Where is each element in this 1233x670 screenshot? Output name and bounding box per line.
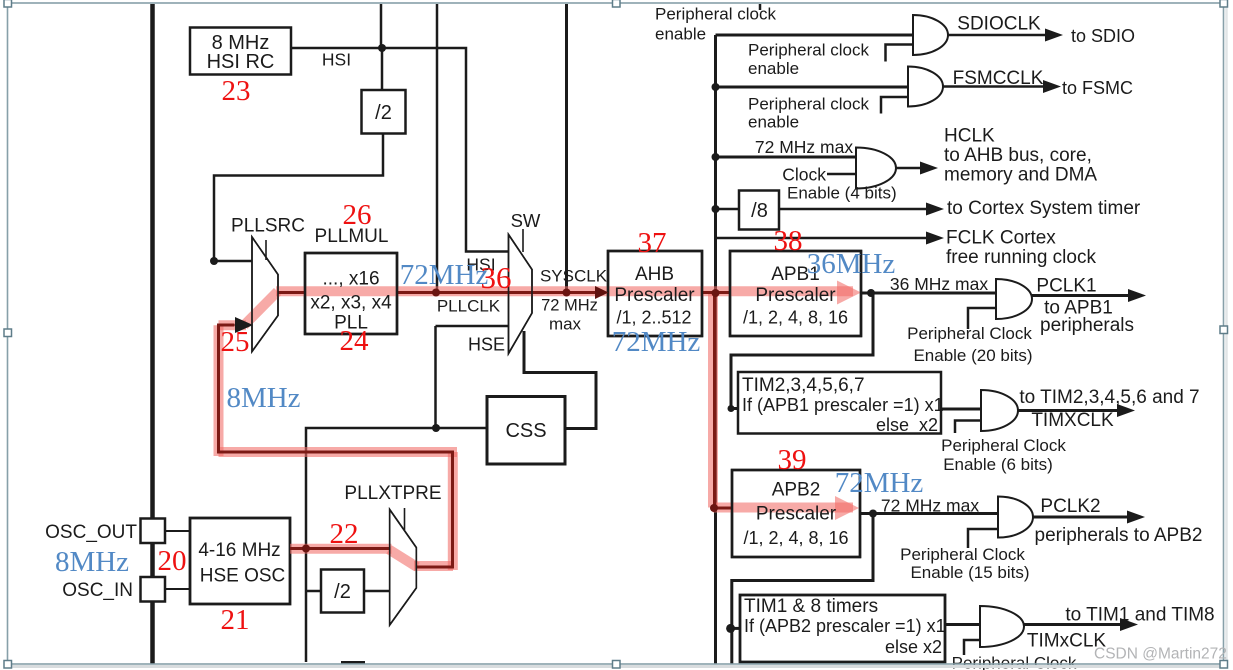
junction /8 tap node: [712, 205, 720, 213]
selection handle top-left: [4, 0, 12, 7]
red highlight band into APB2: [713, 503, 853, 513]
oscillator box 4-16 MHz HSE OSC: [190, 518, 290, 604]
and-gate FSMCCLK enable: [908, 67, 943, 107]
pin OSC_OUT: [141, 519, 166, 544]
selection handle top-mid: [613, 0, 621, 7]
red arrowhead into APB1: [837, 281, 861, 305]
red highlight band main clock run: [276, 286, 853, 296]
selection handle bottom-right: [1220, 661, 1228, 669]
svg-text:/1, 2, 4, 8, 16: /1, 2, 4, 8, 16: [743, 528, 848, 548]
junction HSE output node: [302, 545, 310, 553]
box TIM1 and TIM8 timers: [740, 595, 945, 662]
svg-text:/8: /8: [751, 200, 768, 222]
svg-text:72MHz: 72MHz: [400, 259, 489, 291]
wire SDIO gate enable input: [886, 45, 914, 62]
svg-text:peripherals: peripherals: [1040, 315, 1134, 336]
svg-text:Prescaler: Prescaler: [756, 504, 837, 525]
svg-text:peripherals to APB2: peripherals to APB2: [1035, 525, 1203, 546]
wire HSE route to PLLSRC input 2: [219, 325, 453, 567]
svg-text:SDIOCLK: SDIOCLK: [957, 14, 1041, 35]
wire PLLSRC input 1: [214, 260, 252, 263]
svg-text:36MHz: 36MHz: [807, 248, 896, 280]
PLL box PLLMUL: [305, 253, 397, 334]
wire FSMC gate clock input: [716, 86, 909, 89]
svg-text:Prescaler: Prescaler: [614, 285, 695, 306]
pin OSC_IN: [141, 577, 166, 602]
APB2 box border redraw: [732, 470, 860, 557]
svg-text:..., x16: ..., x16: [322, 269, 379, 290]
arrowhead into PLLSRC mux: [235, 317, 253, 333]
wire PCLK2 gate enable input: [968, 529, 998, 548]
svg-text:PCLK2: PCLK2: [1040, 496, 1100, 517]
svg-text:to TIM1 and TIM8: to TIM1 and TIM8: [1065, 605, 1214, 626]
wire SDIO gate output: [948, 34, 1047, 37]
svg-text:72MHz: 72MHz: [835, 467, 924, 499]
svg-text:36 MHz max: 36 MHz max: [890, 274, 988, 294]
selection handle bottom-left: [4, 661, 12, 669]
svg-text:Enable (4 bits): Enable (4 bits): [787, 184, 897, 203]
wire TIMXCLK gate output: [1018, 409, 1120, 412]
svg-text:to FSMC: to FSMC: [1062, 78, 1133, 98]
box APB1 Prescaler: [730, 251, 861, 336]
red core APB2 input wire: [715, 507, 733, 510]
wire FSMC gate enable input: [881, 97, 908, 114]
svg-text:72 MHz: 72 MHz: [541, 297, 598, 315]
red highlight band vertical rise x218: [214, 325, 224, 456]
selection handle bottom-mid: [613, 661, 621, 669]
svg-text:If (APB1 prescaler =1) x1: If (APB1 prescaler =1) x1: [742, 395, 944, 415]
svg-text:8MHz: 8MHz: [226, 382, 300, 414]
red core PLLCLK wire: [397, 291, 596, 294]
wire APB2 prescaler input: [716, 507, 733, 510]
arrowhead to FSMC: [1043, 80, 1061, 93]
svg-text:enable: enable: [655, 25, 706, 44]
svg-text:Prescaler: Prescaler: [755, 285, 836, 306]
oscillator box 8 MHz HSI RC: [190, 28, 291, 75]
red highlight band HSE output: [290, 544, 392, 554]
svg-text:AHB: AHB: [635, 264, 674, 285]
svg-text:25: 25: [221, 326, 250, 358]
svg-text:to AHB bus, core,: to AHB bus, core,: [944, 145, 1092, 166]
wire APB1 prescaler output: [861, 292, 996, 295]
wire peripheral clock enable top tick: [759, 4, 762, 10]
red highlight band PLLXTPRE diagonal: [389, 550, 417, 568]
wire AHB prescaler output: [702, 291, 730, 294]
wire HSI branch to SW mux: [381, 48, 509, 252]
arrowhead PCLK1: [1128, 289, 1146, 302]
svg-text:OSC_IN: OSC_IN: [62, 580, 133, 601]
junction TIM1 input node: [726, 624, 735, 633]
svg-text:FCLK Cortex: FCLK Cortex: [946, 228, 1056, 249]
svg-text:26: 26: [343, 199, 372, 231]
wire HCLK gate output: [896, 167, 922, 170]
wire HSE OSC output: [290, 547, 390, 550]
red highlight band into PLLSRC: [219, 320, 247, 330]
box TIM2,3,4,5,6,7: [738, 372, 941, 434]
svg-text:72 MHz max: 72 MHz max: [755, 137, 853, 157]
and-gate TIM1 TIMxCLK enable: [980, 606, 1024, 647]
svg-text:OSC_OUT: OSC_OUT: [45, 522, 137, 543]
wire TIM1 gate enable input: [964, 640, 980, 655]
junction HCLK bus node: [712, 289, 720, 297]
svg-text:TIM2,3,4,5,6,7: TIM2,3,4,5,6,7: [742, 375, 865, 396]
svg-text:to SDIO: to SDIO: [1071, 26, 1135, 46]
svg-text:/1, 2, 4, 8, 16: /1, 2, 4, 8, 16: [743, 308, 848, 328]
svg-text:4-16 MHz: 4-16 MHz: [198, 540, 280, 561]
svg-text:37: 37: [638, 227, 667, 259]
svg-text:max: max: [549, 315, 582, 334]
arrowhead HCLK output: [920, 162, 938, 175]
svg-text:Peripheral clock: Peripheral clock: [748, 41, 869, 60]
and-gate HCLK enable: [856, 148, 896, 189]
wire HCLK clock enable input: [827, 173, 856, 176]
svg-text:enable: enable: [748, 113, 799, 132]
arrowhead to Cortex System timer: [926, 203, 944, 216]
svg-text:HSI RC: HSI RC: [207, 51, 275, 73]
junction APB1 output node: [867, 289, 875, 297]
svg-text:enable: enable: [748, 59, 799, 78]
PLLSRC mux border redraw: [252, 237, 278, 352]
svg-text:Enable (20 bits): Enable (20 bits): [913, 346, 1032, 365]
wire FSMC gate output: [943, 85, 1045, 88]
box AHB Prescaler: [608, 251, 702, 336]
wire HSE /2 input: [306, 590, 321, 593]
box CSS: [487, 397, 565, 465]
svg-text:21: 21: [221, 604, 250, 636]
arrowhead FCLK Cortex: [926, 232, 944, 245]
wire TIM2 block output: [941, 408, 981, 411]
svg-text:/2: /2: [334, 581, 351, 603]
svg-text:Peripheral Clock: Peripheral Clock: [907, 324, 1032, 343]
red core PLLXTPRE to PLLSRC wire: [219, 325, 453, 567]
svg-text:TIM1 & 8 timers: TIM1 & 8 timers: [744, 596, 878, 617]
svg-text:8MHz: 8MHz: [55, 546, 129, 578]
wire HSI to /2 divider: [381, 48, 384, 90]
frame shadow bottom: [12, 665, 1223, 668]
junction HCLK tap node: [712, 153, 720, 161]
wire APB2 to TIM1 block: [732, 514, 873, 665]
wire PCLK2 gate output: [1033, 516, 1130, 519]
svg-text:to TIM2,3,4,5,6 and 7: to TIM2,3,4,5,6 and 7: [1019, 387, 1199, 408]
mux PLLSRC select tick: [265, 240, 267, 260]
APB1 box border redraw: [730, 251, 861, 336]
svg-text:x2, x3, x4: x2, x3, x4: [310, 293, 392, 314]
wire FCLK Cortex: [716, 237, 929, 240]
wire HSE branch to SW mux: [436, 326, 509, 428]
wire APB2 prescaler output: [860, 512, 998, 515]
wire left thick bus: [150, 4, 155, 664]
divider box /2 HSE: [321, 570, 364, 613]
wire bottom cut fragment: [341, 661, 365, 664]
wire PLLSRC output: [278, 291, 305, 294]
wire HSE riser and CSS line: [306, 428, 487, 662]
frame shadow right: [1225, 8, 1228, 664]
svg-text:TIMXCLK: TIMXCLK: [1031, 410, 1114, 431]
svg-text:23: 23: [222, 75, 251, 107]
red core PLLSRC output wire: [278, 291, 305, 294]
wire TIM1 block input stub: [731, 627, 740, 630]
red highlight band horizontal y452: [219, 447, 458, 457]
junction TIM2 input corner node: [728, 405, 735, 412]
selection handle top-right: [1220, 0, 1228, 7]
svg-text:HSI: HSI: [322, 50, 351, 70]
svg-text:/1, 2..512: /1, 2..512: [616, 308, 691, 328]
junction CSS line node: [432, 424, 440, 432]
svg-text:24: 24: [340, 325, 370, 357]
selection handle mid-left: [4, 329, 12, 337]
and-gate TIMXCLK enable: [981, 390, 1018, 431]
svg-text:Peripheral clock: Peripheral clock: [655, 5, 776, 24]
mux SW: [509, 235, 533, 354]
svg-text:If (APB2 prescaler =1) x1: If (APB2 prescaler =1) x1: [744, 616, 946, 636]
wire HSI RC output: [291, 47, 382, 50]
red core HSE output wire: [290, 547, 390, 550]
svg-text:free running clock: free running clock: [946, 247, 1096, 268]
red arrowhead into APB2: [835, 496, 859, 520]
svg-text:Peripheral Clock: Peripheral Clock: [900, 545, 1025, 564]
junction FSMC tap node: [712, 83, 720, 91]
wire PCLK1 gate enable input: [968, 308, 996, 329]
svg-text:CSS: CSS: [505, 420, 546, 442]
SW mux border redraw: [509, 235, 533, 354]
svg-text:HSE OSC: HSE OSC: [200, 566, 286, 587]
divider box /8: [739, 191, 779, 230]
PLLXTPRE mux border redraw: [390, 510, 417, 626]
arrowhead TIM1 TIMxCLK: [1120, 618, 1138, 631]
wire HSE /2 output: [364, 590, 390, 593]
junction APB2 output node: [869, 510, 877, 518]
red highlight band vertical rise x452: [448, 452, 458, 570]
mux PLLXTPRE: [390, 510, 417, 626]
svg-text:39: 39: [778, 444, 807, 476]
wire SDIO gate clock input: [716, 34, 914, 37]
svg-text:72MHz: 72MHz: [612, 326, 701, 358]
svg-text:else x2: else x2: [885, 637, 942, 657]
svg-text:PCLK1: PCLK1: [1036, 276, 1096, 297]
svg-text:HCLK: HCLK: [944, 126, 995, 147]
svg-text:20: 20: [158, 545, 187, 577]
box APB2 Prescaler: [732, 470, 860, 557]
junction PLLSRC input node: [210, 257, 218, 265]
junction SYSCLK node: [563, 289, 571, 297]
wire SYSCLK top riser: [565, 4, 568, 293]
wire SW HSE input to CSS: [524, 331, 596, 429]
junction HSI node: [378, 44, 386, 52]
mux PLLSRC: [252, 237, 278, 352]
PLLMUL box border redraw: [305, 253, 397, 334]
red highlight band PLLXTPRE output: [414, 561, 453, 571]
svg-text:22: 22: [330, 518, 359, 550]
divider box /2 HSI: [362, 90, 406, 134]
and-gate SDIOCLK enable: [913, 15, 948, 55]
wire APB1 to TIM2 block: [731, 293, 873, 409]
wire SYSCLK: [532, 291, 597, 294]
and-gate PCLK2 enable: [998, 497, 1033, 538]
wire TIM1 block output: [945, 623, 980, 626]
svg-text:CSDN @Martin272: CSDN @Martin272: [1094, 646, 1227, 663]
wire right HCLK bus: [714, 35, 717, 664]
svg-text:38: 38: [774, 225, 803, 257]
svg-text:/2: /2: [375, 102, 392, 124]
wire HCLK gate clock input: [716, 156, 857, 159]
arrowhead to SDIO: [1045, 29, 1063, 42]
red highlight band PLLSRC diagonal: [244, 292, 278, 326]
svg-text:SW: SW: [511, 210, 541, 231]
mux PLLXTPRE select tick: [404, 508, 406, 530]
wire /8 output to Cortex timer: [779, 208, 928, 211]
svg-text:Clock: Clock: [782, 165, 826, 185]
and-gate PCLK1 enable: [996, 279, 1032, 319]
svg-text:to Cortex System timer: to Cortex System timer: [947, 198, 1141, 219]
arrowhead SYSCLK into AHB: [595, 286, 609, 299]
junction APB2 input corner node: [710, 504, 718, 512]
junction PLLCLK node: [432, 289, 440, 297]
svg-text:PLLXTPRE: PLLXTPRE: [344, 483, 441, 504]
mux SW select tick: [522, 229, 524, 252]
wire PCLK1 gate output: [1032, 294, 1130, 297]
svg-text:SYSCLK: SYSCLK: [540, 267, 608, 286]
red highlight band HCLK bus down: [708, 291, 718, 507]
wire PLLCLK: [397, 291, 509, 294]
svg-text:Peripheral Clock: Peripheral Clock: [941, 436, 1066, 455]
arrowhead PCLK2: [1127, 511, 1145, 524]
wire /2 output to PLLSRC: [214, 134, 383, 262]
svg-text:Enable (15 bits): Enable (15 bits): [910, 563, 1029, 582]
svg-text:HSE: HSE: [468, 335, 505, 355]
svg-text:PLLCLK: PLLCLK: [437, 297, 501, 316]
wire /8 input: [716, 208, 740, 211]
arrowhead TIMXCLK: [1117, 404, 1135, 417]
wire PLLCLK top riser: [436, 4, 439, 293]
wire HSI top riser: [380, 4, 383, 48]
wire OSC_OUT pin: [165, 530, 190, 532]
wire TIM1 gate output: [1024, 623, 1123, 626]
svg-text:memory and DMA: memory and DMA: [944, 164, 1097, 185]
AHB box border redraw: [608, 251, 702, 336]
wire TIMXCLK gate enable input: [955, 421, 981, 434]
svg-text:FSMCCLK: FSMCCLK: [953, 68, 1044, 89]
red core AHB output wire: [702, 291, 730, 294]
red core HCLK bus vertical: [713, 293, 716, 509]
svg-text:else x2: else x2: [876, 415, 938, 435]
svg-text:PLLSRC: PLLSRC: [231, 216, 305, 237]
selection handle mid-right: [1220, 326, 1228, 334]
svg-text:Peripheral clock: Peripheral clock: [748, 95, 869, 114]
wire OSC_IN pin: [165, 588, 190, 590]
svg-text:Enable (6 bits): Enable (6 bits): [943, 455, 1053, 474]
svg-text:APB2: APB2: [772, 480, 821, 501]
